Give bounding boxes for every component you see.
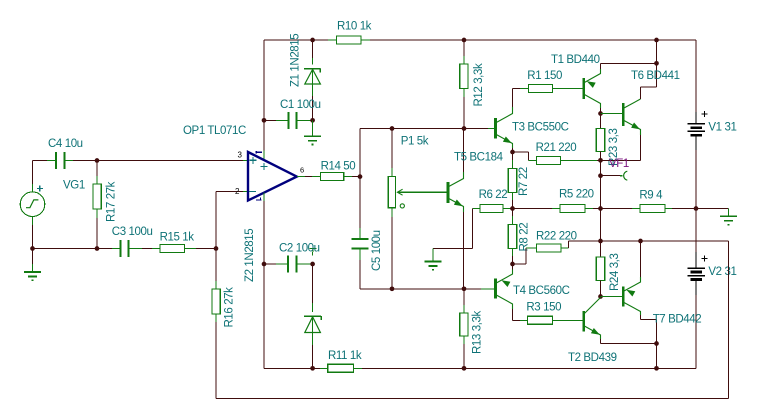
capacitor C5 — [352, 239, 369, 248]
wire op-amp pin4 supply — [263, 193, 265, 369]
zener diode Z1 — [304, 69, 320, 84]
wire VG1 bottom lead — [32, 217, 34, 249]
junction VG1 / ground — [30, 246, 35, 251]
wire mid rail — [473, 208, 729, 210]
svg-text:T5 BC184: T5 BC184 — [454, 151, 504, 163]
pin number 4 — [256, 197, 262, 200]
label P1 value — [401, 136, 429, 148]
label C2 value — [279, 243, 320, 255]
wire VG1 top lead — [32, 161, 34, 193]
wire input bottom rail — [33, 248, 121, 250]
svg-text:C1 100u: C1 100u — [280, 99, 321, 111]
wire feedback right edge — [728, 241, 730, 399]
wire input top — [33, 160, 57, 162]
svg-text:R3 150: R3 150 — [526, 302, 561, 314]
junction R8 bottom / T4 emitter — [510, 262, 515, 267]
zener diode Z2 — [304, 316, 321, 333]
svg-text:R17 27k: R17 27k — [105, 181, 117, 222]
svg-text:3: 3 — [238, 151, 243, 160]
svg-text:C4 10u: C4 10u — [48, 138, 83, 150]
ground below VG1 — [24, 249, 41, 281]
capacitor C1 — [288, 112, 296, 129]
wire -V rail right — [464, 367, 657, 369]
resistor R24 — [596, 241, 604, 297]
svg-text:R6 22: R6 22 — [479, 189, 508, 201]
capacitor C2 — [288, 256, 297, 273]
label VG1 — [63, 180, 85, 192]
svg-text:R9 4: R9 4 — [639, 190, 663, 202]
battery V2 — [688, 209, 708, 280]
wire R6 left to ground — [433, 209, 473, 249]
label R3 value — [526, 302, 561, 314]
wire T7 base — [601, 296, 623, 298]
wire -V rail left — [264, 367, 313, 369]
label V1 value — [708, 122, 736, 134]
resistor R3 — [513, 316, 583, 324]
svg-text:V2 31: V2 31 — [708, 266, 736, 278]
junction T2 collector / T7 base — [598, 294, 603, 299]
wire node to op-amp pin2 — [216, 192, 248, 249]
junction R17 bottom — [95, 246, 100, 251]
label R22 value — [536, 231, 577, 243]
junction top rail / Z1 — [310, 38, 315, 43]
svg-text:VG1: VG1 — [63, 180, 85, 192]
wire feedback bottom — [216, 398, 729, 400]
svg-text:R8 22: R8 22 — [518, 223, 530, 252]
svg-text:P1 5k: P1 5k — [401, 136, 429, 148]
wire T6 collector — [641, 63, 657, 96]
capacitor C4 — [56, 152, 65, 169]
pin number 3 — [238, 151, 243, 160]
wire driver rail y=128 — [360, 128, 494, 130]
resistor R16 — [212, 249, 220, 399]
label R10 value — [337, 21, 372, 33]
wire V1 positive lead — [695, 40, 697, 112]
resistor R6 — [473, 205, 513, 213]
wire output node up — [359, 129, 361, 177]
wire op-amp pin7 supply — [263, 40, 265, 160]
svg-text:R22 220: R22 220 — [536, 231, 577, 243]
label T1 name — [551, 54, 600, 66]
junction T5 emitter / R13 top — [462, 286, 467, 291]
svg-text:2: 2 — [235, 187, 240, 196]
polarity mark C2 — [310, 245, 317, 256]
svg-text:6: 6 — [300, 166, 304, 175]
resistor R23 — [596, 114, 604, 161]
svg-text:R11 1k: R11 1k — [328, 350, 362, 362]
junction P1 bottom — [390, 286, 395, 291]
resistor R11 — [313, 364, 464, 372]
label Z2 value — [244, 229, 256, 282]
wire C5 bottom lead — [360, 248, 392, 288]
label R11 value — [328, 350, 362, 362]
junction C2 right / Z2 — [310, 262, 315, 267]
junction C1 left — [262, 118, 267, 123]
label R23 value — [608, 129, 620, 166]
label C5 value — [371, 230, 383, 271]
svg-text:R15 1k: R15 1k — [160, 232, 195, 244]
label R16 value — [223, 287, 235, 328]
label T7 name — [653, 313, 702, 325]
ground below C1 — [304, 120, 321, 144]
svg-text:R10 1k: R10 1k — [337, 21, 372, 33]
svg-text:T1 BD440: T1 BD440 — [551, 54, 600, 66]
junction T2-T7 / -V rail — [654, 366, 659, 371]
wire C2 row — [264, 263, 313, 265]
potentiometer P1 — [388, 129, 447, 289]
junction VF1 tap — [598, 173, 603, 178]
resistor R7 — [508, 152, 516, 209]
op-amp OP1 — [248, 152, 297, 201]
wire feedback to right edge — [641, 240, 729, 242]
label R15 value — [160, 232, 195, 244]
wire C3 to R15 — [128, 248, 152, 250]
label V2 value — [708, 266, 736, 278]
svg-text:C5 100u: C5 100u — [371, 230, 383, 271]
wire feedback left riser — [215, 322, 217, 399]
svg-text:V1 31: V1 31 — [708, 122, 736, 134]
label VF1 — [609, 158, 629, 170]
resistor R17 — [93, 161, 101, 249]
svg-text:Z1 1N2815: Z1 1N2815 — [289, 34, 301, 87]
wire T6 base — [601, 113, 623, 115]
wire Z2 cathode — [312, 264, 314, 312]
label C3 value — [112, 226, 153, 238]
svg-text:C3 100u: C3 100u — [112, 226, 153, 238]
transistor T1 — [584, 63, 657, 113]
ground right — [720, 209, 737, 225]
wire Z2 anode — [312, 333, 314, 369]
label T5 name — [454, 151, 504, 163]
junction input node / R17 — [95, 158, 100, 163]
voltage generator VG1 — [20, 186, 45, 217]
label T2 name — [568, 352, 617, 364]
svg-text:VF1: VF1 — [609, 158, 629, 170]
svg-text:OP1 TL071C: OP1 TL071C — [183, 125, 246, 137]
label R8 value — [518, 223, 530, 252]
junction R23 bottom node — [598, 158, 603, 163]
label R5 value — [559, 189, 594, 201]
ground below R6 — [424, 249, 441, 270]
resistor R5 — [513, 205, 601, 213]
battery V1 — [688, 111, 708, 209]
svg-text:T7 BD442: T7 BD442 — [653, 313, 702, 325]
svg-text:R16 27k: R16 27k — [223, 287, 235, 328]
svg-text:T4 BC560C: T4 BC560C — [513, 285, 570, 297]
wire Z1 cathode — [312, 40, 314, 65]
svg-text:Z2 1N2815: Z2 1N2815 — [244, 229, 256, 282]
junction R12 bottom / T5 collector — [462, 126, 467, 131]
svg-text:C2 100u: C2 100u — [279, 243, 320, 255]
label R17 value — [105, 181, 117, 222]
resistor R15 — [152, 245, 216, 253]
svg-text:R13 3,3k: R13 3,3k — [471, 311, 483, 354]
label T6 name — [631, 70, 680, 82]
junction R7 bottom / R6 — [510, 206, 515, 211]
label C1 value — [280, 99, 321, 111]
resistor R22 — [513, 241, 601, 264]
wire VF1 — [601, 171, 628, 180]
junction mid rail / V1 — [694, 206, 699, 211]
resistor R10 — [313, 36, 380, 44]
wire feedback node to T7 emitter — [601, 240, 641, 242]
wire C4 to node — [65, 160, 98, 162]
label R13 value — [471, 311, 483, 354]
wire Z1 anode — [312, 84, 314, 120]
label OP1 name — [183, 125, 246, 137]
label R1 value — [527, 70, 562, 82]
svg-text:R12 3,3k: R12 3,3k — [473, 63, 485, 106]
svg-text:T6 BD441: T6 BD441 — [631, 70, 680, 82]
transistor T5 — [448, 129, 464, 289]
svg-text:T2 BD439: T2 BD439 — [568, 352, 617, 364]
pin number 2 — [235, 187, 240, 196]
svg-text:R5 220: R5 220 — [559, 189, 594, 201]
transistor T4 — [496, 264, 513, 320]
junction feedback node — [214, 246, 219, 251]
wire C1 row — [264, 119, 313, 121]
wire T1/T6 node to +V rail — [656, 40, 658, 63]
pin number 6 — [300, 166, 304, 175]
junction top rail / R12 — [462, 38, 467, 43]
label R7 value — [518, 167, 530, 196]
svg-text:R24 3,3: R24 3,3 — [609, 254, 621, 291]
pin number 7 — [256, 151, 262, 154]
resistor R13 — [460, 289, 468, 369]
junction mid rail / R23 net — [598, 206, 603, 211]
wire C5 top lead — [359, 177, 361, 239]
wire bias rail — [392, 288, 494, 290]
transistor T3 — [496, 88, 513, 152]
junction top rail / T1-T6 node — [654, 38, 659, 43]
label C4 value — [48, 138, 83, 150]
resistor R9 — [601, 205, 697, 213]
label R12 value — [473, 63, 485, 106]
capacitor C3 — [121, 240, 129, 257]
junction R22 / R24 node — [598, 239, 603, 244]
label R21 value — [536, 142, 577, 154]
wire +V1 top rail — [264, 39, 696, 41]
resistor R21 — [513, 152, 601, 164]
wire -V rail to V2 — [657, 280, 697, 369]
wire T6 emitter to node — [601, 159, 641, 161]
label R24 value — [609, 254, 621, 291]
label R6 value — [479, 189, 508, 201]
transistor T6 — [623, 96, 640, 160]
resistor R8 — [508, 209, 516, 265]
wire output column — [600, 160, 602, 241]
junction T2 emitter / T7 collector — [654, 341, 659, 346]
junction Z2 / -V rail — [310, 366, 315, 371]
junction T3 emitter node — [510, 150, 515, 155]
transistor T2 — [584, 298, 657, 344]
junction R14 output node — [358, 174, 363, 179]
label Z1 value — [289, 34, 301, 87]
junction T1 emitter rail node — [654, 61, 659, 66]
label R14 value — [321, 160, 356, 172]
label R9 value — [639, 190, 663, 202]
svg-text:R7 22: R7 22 — [518, 167, 530, 196]
junction R13 / -V rail — [462, 366, 467, 371]
svg-text:R1 150: R1 150 — [527, 70, 562, 82]
junction C1 right / ground — [310, 118, 315, 123]
junction P1 top — [390, 126, 395, 131]
junction C2 left — [262, 262, 267, 267]
junction T7 emitter node — [638, 239, 643, 244]
resistor R14 — [297, 173, 360, 181]
junction T6 base node — [598, 111, 603, 116]
resistor R12 — [460, 40, 468, 129]
svg-text:R21 220: R21 220 — [536, 142, 577, 154]
svg-text:T3 BC550C: T3 BC550C — [512, 122, 569, 134]
resistor R1 — [513, 84, 583, 92]
wire node to op-amp pin3 — [97, 160, 248, 162]
label T3 name — [512, 122, 569, 134]
svg-text:R14 50: R14 50 — [321, 160, 356, 172]
transistor T7 — [623, 241, 656, 368]
label T4 name — [513, 285, 570, 297]
